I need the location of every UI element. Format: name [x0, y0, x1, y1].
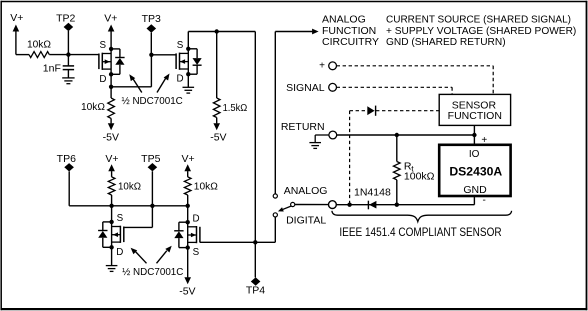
- svg-text:+: +: [319, 61, 325, 72]
- svg-text:D: D: [177, 74, 184, 85]
- svg-text:CURRENT SOURCE (SHARED SIGNAL): CURRENT SOURCE (SHARED SIGNAL): [386, 14, 571, 26]
- svg-text:CIRCUITRY: CIRCUITRY: [322, 36, 379, 48]
- svg-text:GND (SHARED RETURN): GND (SHARED RETURN): [386, 36, 506, 48]
- svg-text:-5V: -5V: [210, 132, 226, 144]
- svg-text:100kΩ: 100kΩ: [404, 171, 435, 183]
- svg-text:TP5: TP5: [141, 153, 160, 165]
- svg-text:V+: V+: [104, 12, 117, 24]
- svg-text:S: S: [193, 247, 200, 258]
- svg-text:10kΩ: 10kΩ: [118, 181, 141, 193]
- svg-text:V+: V+: [182, 153, 195, 165]
- svg-text:D: D: [99, 74, 106, 85]
- svg-text:D: D: [116, 247, 123, 258]
- svg-text:½ NDC7001C: ½ NDC7001C: [122, 95, 184, 107]
- svg-text:GND: GND: [463, 184, 487, 196]
- svg-text:10kΩ: 10kΩ: [194, 180, 218, 192]
- svg-text:ANALOG: ANALOG: [322, 14, 366, 26]
- svg-text:TP6: TP6: [57, 153, 76, 165]
- svg-text:ANALOG: ANALOG: [284, 185, 328, 197]
- svg-text:FUNCTION: FUNCTION: [448, 110, 502, 122]
- svg-text:SIGNAL: SIGNAL: [286, 82, 325, 94]
- svg-text:TP2: TP2: [56, 12, 75, 24]
- svg-text:-5V: -5V: [103, 132, 119, 144]
- svg-text:10kΩ: 10kΩ: [27, 38, 51, 50]
- svg-text:1nF: 1nF: [43, 62, 61, 74]
- svg-text:1.5kΩ: 1.5kΩ: [223, 102, 248, 114]
- svg-text:1N4148: 1N4148: [354, 186, 391, 198]
- svg-text:V+: V+: [10, 12, 23, 24]
- svg-text:TP3: TP3: [142, 13, 161, 25]
- svg-text:V+: V+: [105, 153, 118, 165]
- svg-text:S: S: [100, 40, 107, 51]
- svg-text:TP4: TP4: [246, 285, 265, 297]
- svg-text:S: S: [177, 40, 184, 51]
- svg-text:DIGITAL: DIGITAL: [286, 214, 326, 226]
- svg-text:D: D: [192, 213, 199, 224]
- svg-text:½ NDC7001C: ½ NDC7001C: [122, 266, 184, 278]
- svg-text:DS2430A: DS2430A: [449, 164, 502, 178]
- svg-text:RETURN: RETURN: [281, 121, 325, 133]
- svg-text:IO: IO: [469, 149, 480, 160]
- svg-text:-5V: -5V: [179, 286, 195, 298]
- svg-text:10kΩ: 10kΩ: [81, 101, 105, 113]
- svg-text:IEEE 1451.4 COMPLIANT SENSOR: IEEE 1451.4 COMPLIANT SENSOR: [339, 225, 501, 239]
- svg-text:S: S: [117, 213, 124, 224]
